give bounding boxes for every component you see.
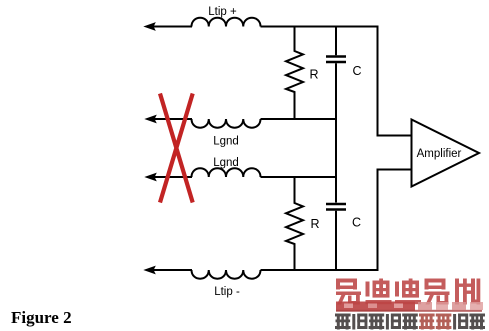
svg-text:Lgnd: Lgnd — [213, 157, 239, 169]
svg-text:Amplifier: Amplifier — [417, 148, 462, 160]
svg-text:Figure 2: Figure 2 — [11, 308, 72, 327]
svg-text:R: R — [310, 217, 319, 231]
svg-text:C: C — [352, 216, 361, 230]
svg-text:Lgnd: Lgnd — [213, 136, 239, 148]
svg-text:R: R — [309, 68, 318, 82]
svg-text:Ltip -: Ltip - — [214, 286, 240, 298]
svg-text:C: C — [352, 64, 361, 78]
svg-text:Ltip +: Ltip + — [208, 6, 237, 18]
